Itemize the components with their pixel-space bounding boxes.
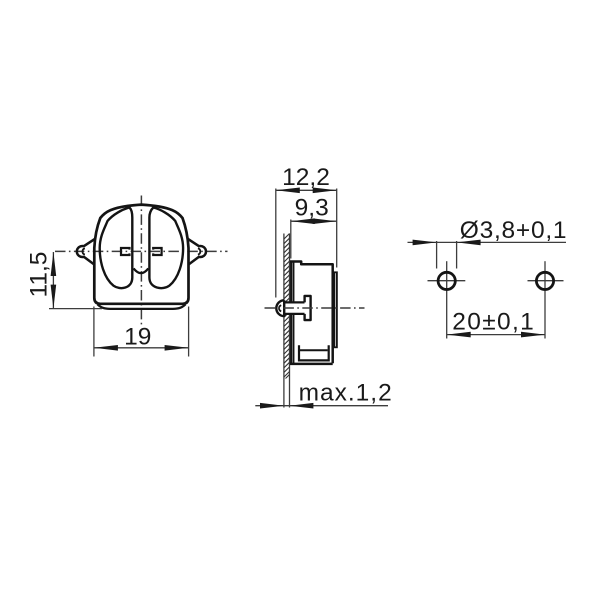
svg-text:9,3: 9,3 bbox=[295, 194, 329, 221]
svg-text:Ø3,8+0,1: Ø3,8+0,1 bbox=[460, 217, 567, 244]
svg-text:20±0,1: 20±0,1 bbox=[452, 308, 535, 335]
svg-text:12,2: 12,2 bbox=[282, 164, 330, 191]
svg-text:11,5: 11,5 bbox=[26, 252, 53, 298]
svg-text:max.1,2: max.1,2 bbox=[299, 380, 393, 407]
svg-text:19: 19 bbox=[124, 323, 151, 350]
